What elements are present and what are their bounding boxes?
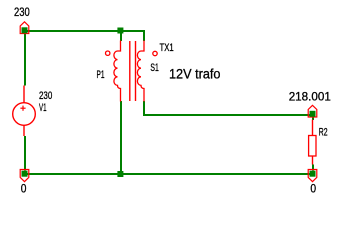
wire R2 bottom stub <box>312 165 314 171</box>
svg-text:12V trafo: 12V trafo <box>169 67 221 82</box>
svg-text:V1: V1 <box>39 102 47 114</box>
svg-text:230: 230 <box>14 5 30 19</box>
resistor R2 <box>309 120 316 165</box>
junction on top rail at primary <box>117 28 123 34</box>
wire top rail from node 230 to transformer secondary <box>24 30 145 32</box>
node 218.001 voltage pin marker (up) <box>308 105 317 117</box>
wire secondary output to R2 <box>144 101 314 115</box>
svg-text:218.001: 218.001 <box>289 89 332 103</box>
svg-text:0: 0 <box>21 182 27 196</box>
secondary polarity dot <box>153 51 157 55</box>
wire primary top stub <box>120 33 122 41</box>
transformer TX1 primary winding P1 <box>114 41 121 102</box>
wire left vertical from node 230 to V1 <box>24 33 26 86</box>
junction on bottom rail at primary <box>117 171 123 177</box>
wire primary bottom to bottom rail <box>120 101 122 174</box>
transformer core lines <box>129 41 131 101</box>
node 0 left voltage pin marker (down) <box>20 170 29 182</box>
node 0 right voltage pin marker (down) <box>308 170 317 182</box>
wire V1 bottom to bottom rail <box>24 136 26 171</box>
transformer TX1 secondary winding S1 <box>137 41 144 102</box>
svg-text:S1: S1 <box>150 62 158 74</box>
svg-text:TX1: TX1 <box>160 42 174 54</box>
svg-text:R2: R2 <box>319 126 328 138</box>
primary polarity dot <box>106 51 110 55</box>
wire bottom rail <box>24 173 314 175</box>
node 230 voltage pin marker (up) <box>20 22 29 34</box>
svg-text:0: 0 <box>310 182 316 196</box>
wire secondary top corner <box>143 30 145 41</box>
voltage source V1 <box>13 86 36 137</box>
wire R2 top stub <box>312 114 314 120</box>
svg-text:P1: P1 <box>97 69 105 81</box>
svg-text:230: 230 <box>39 90 52 102</box>
